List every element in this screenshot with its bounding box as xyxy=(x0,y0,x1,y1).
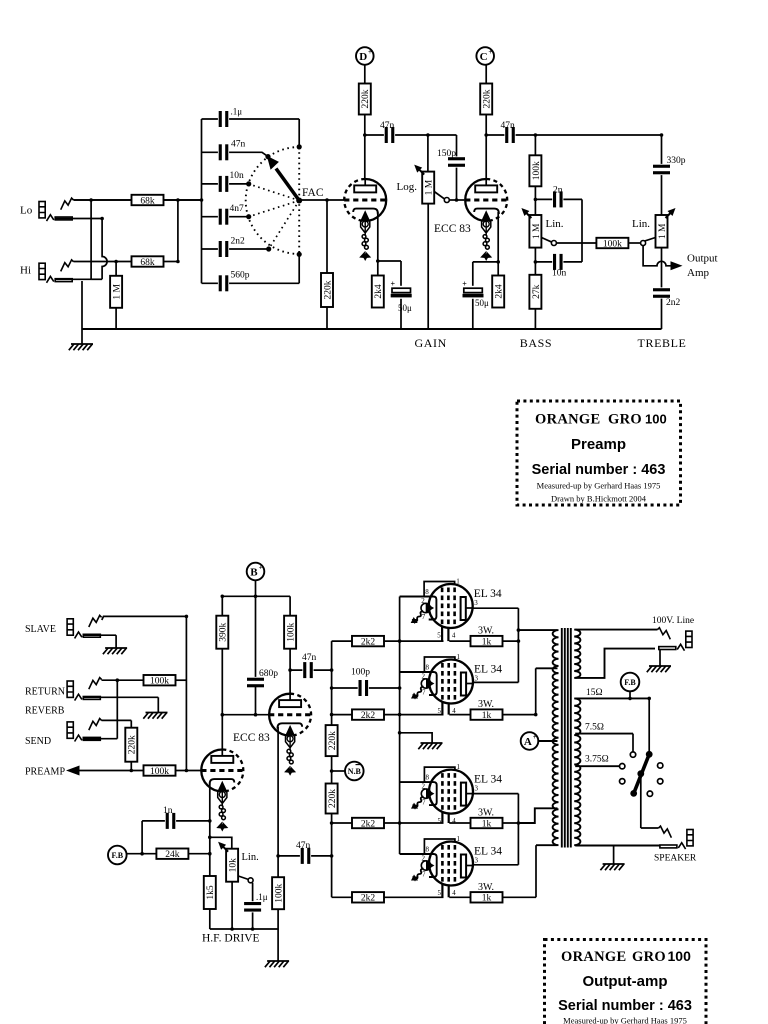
FAC selector dotted chord xyxy=(298,147,300,254)
resistor R20 100k return xyxy=(144,675,176,687)
svg-text:7.5Ω: 7.5Ω xyxy=(585,723,604,733)
svg-text:150p: 150p xyxy=(437,149,456,159)
resistor R4 220k grid xyxy=(321,273,333,307)
preamp nameplate box xyxy=(517,401,681,505)
wire: return tip to send ring vertical xyxy=(116,680,118,739)
svg-text:4: 4 xyxy=(452,817,456,825)
jack J1 Lo input xyxy=(39,198,74,221)
wire: speaker return bus xyxy=(575,845,660,847)
transformer core xyxy=(562,628,571,848)
svg-text:ECC 83: ECC 83 xyxy=(233,732,270,744)
jack J6 100V Line xyxy=(658,628,693,651)
svg-text:10k: 10k xyxy=(229,858,239,873)
svg-text:Lo: Lo xyxy=(20,205,33,217)
tube V3 ECC83 triode (driver input) xyxy=(201,750,243,792)
svg-text:2: 2 xyxy=(422,855,426,863)
wire: join 68k outputs xyxy=(177,200,179,262)
svg-text:2k4: 2k4 xyxy=(495,284,505,299)
svg-text:Serial number : 463: Serial number : 463 xyxy=(532,462,666,478)
resistor R25 100k xyxy=(272,877,284,909)
svg-text:68k: 68k xyxy=(140,196,155,206)
svg-text:1: 1 xyxy=(457,653,461,661)
svg-text:100k: 100k xyxy=(275,883,285,902)
resistor R32 2k2 grid xyxy=(352,818,384,830)
wire: bus B to EL34 grid bracket xyxy=(400,781,426,783)
wire: send ring xyxy=(83,738,117,740)
wire: 1n to FB row xyxy=(141,821,143,854)
resistor R36 220k bias xyxy=(326,784,338,814)
wire: Hi ring contact xyxy=(55,278,91,280)
wire: .1u row xyxy=(202,118,300,120)
wire: C+ to V2 anode xyxy=(485,65,487,186)
wire: 390k branch xyxy=(221,596,223,714)
svg-text:50μ: 50μ xyxy=(398,303,412,313)
wire: 2n row xyxy=(535,198,582,200)
wire: ring to ground xyxy=(659,649,661,666)
svg-text:2n2: 2n2 xyxy=(666,298,681,308)
wire: row3 right xyxy=(449,822,535,824)
svg-text:3W.: 3W. xyxy=(478,699,494,710)
tube V7 EL34 #3 xyxy=(411,763,502,825)
svg-text:2k2: 2k2 xyxy=(361,711,376,721)
wire: FAC right bus upper xyxy=(298,119,300,147)
wire: FAC right bus lower xyxy=(298,254,300,283)
tube V2a ECC83 triode xyxy=(465,179,507,221)
wire: 1k row4 to primary bottom xyxy=(535,845,537,897)
svg-text:+: + xyxy=(368,48,372,56)
wire: switch common to speaker tip xyxy=(640,774,642,828)
svg-text:4: 4 xyxy=(452,707,456,715)
potentiometer VR4 10k (Lin.) xyxy=(218,842,238,882)
svg-text:EL 34: EL 34 xyxy=(474,846,502,858)
capacitor C12 2n xyxy=(552,190,563,208)
capacitor C1 .1u xyxy=(218,110,229,128)
resistor R43 1k 3W xyxy=(471,892,503,904)
wire: bus to ground xyxy=(277,929,279,961)
svg-text:4: 4 xyxy=(452,889,456,897)
svg-text:+: + xyxy=(533,733,537,741)
wire: 10k bottom to bus xyxy=(231,882,233,929)
FAC selector dotted arc xyxy=(246,147,300,254)
wire: EL34 #4 pin4 lead xyxy=(448,878,450,898)
svg-text:7: 7 xyxy=(422,689,426,697)
svg-text:Measured-up by Gerhard Haas 19: Measured-up by Gerhard Haas 1975 xyxy=(563,1016,687,1024)
resistor R1 1M input xyxy=(110,276,122,308)
wiper gain pot xyxy=(434,192,449,203)
resistor R3 68k (Hi) xyxy=(132,256,164,268)
svg-text:ORANGE: ORANGE xyxy=(561,949,626,965)
resistor R40 1k 3W xyxy=(471,636,503,648)
wire: 100k to treble wiper xyxy=(628,242,640,244)
FAC dotted radial xyxy=(249,201,300,217)
wire: FB to 24k xyxy=(127,853,156,855)
wire: ground stem xyxy=(81,329,83,344)
svg-text:3W.: 3W. xyxy=(478,626,494,637)
wiper treble pot xyxy=(641,238,656,246)
svg-text:100k: 100k xyxy=(532,161,542,180)
wire: bus B to EL34 grid bracket xyxy=(400,596,426,598)
svg-text:1 M: 1 M xyxy=(113,283,123,299)
wire: cap join vertical xyxy=(581,199,583,262)
svg-text:220k: 220k xyxy=(328,789,338,808)
wire: 47n row to contact xyxy=(202,152,269,156)
potentiometer VR3 1M treble (Lin.) xyxy=(656,208,676,248)
wire: HF drive bus xyxy=(210,928,278,930)
tube V4 ECC83 triode (cathodyne) xyxy=(269,694,311,736)
wire: V4 cathode down xyxy=(277,727,279,878)
arrow: to output amp xyxy=(671,261,683,270)
svg-text:N.B: N.B xyxy=(348,767,362,776)
FAC wiper arrow xyxy=(267,156,302,204)
capacitor C23 1n xyxy=(165,812,176,830)
svg-text:2: 2 xyxy=(421,597,425,605)
svg-text:TREBLE: TREBLE xyxy=(638,336,687,350)
svg-text:27k: 27k xyxy=(532,284,542,299)
wire: 680p bottom xyxy=(255,687,257,715)
svg-text:A: A xyxy=(524,736,532,748)
node D+ supply xyxy=(356,47,374,65)
svg-text:7: 7 xyxy=(422,613,426,621)
resistor R27 1k5 xyxy=(204,876,216,909)
wire: gain pot to ground xyxy=(427,203,429,329)
svg-text:SLAVE: SLAVE xyxy=(25,624,56,635)
wire: to 150p xyxy=(456,135,458,200)
wire: EL34 #1 pin4 lead xyxy=(447,620,449,641)
wire: bus B to EL34 grid bracket xyxy=(400,671,426,673)
wire: bus to ground xyxy=(613,846,615,865)
wire: 7.5 ohm tap xyxy=(575,733,633,735)
wire: 220k to preamp line xyxy=(130,762,132,771)
svg-text:47n: 47n xyxy=(380,121,395,131)
svg-text:Output-amp: Output-amp xyxy=(583,973,668,990)
ground (slave jack) xyxy=(103,648,127,654)
wire: 100V line tip xyxy=(575,629,657,631)
resistor R35 220k bias xyxy=(326,725,338,756)
wire: FAC to V1 grid xyxy=(299,199,344,201)
wire: 100V line ring xyxy=(575,649,655,678)
svg-text:100k: 100k xyxy=(150,677,169,687)
wire: grid row 2 left xyxy=(332,714,444,716)
wire: 68k Lo out to FAC bus xyxy=(164,199,202,201)
svg-text:390k: 390k xyxy=(219,622,229,641)
svg-text:100: 100 xyxy=(668,948,692,964)
svg-text:GRO: GRO xyxy=(632,949,666,965)
svg-text:3: 3 xyxy=(475,857,479,865)
svg-text:1k: 1k xyxy=(482,819,492,829)
svg-text:2n: 2n xyxy=(553,186,563,196)
wire: V2 cathode xyxy=(497,212,499,276)
wire: preamp ground bus xyxy=(82,328,662,330)
wire: wiper to V2 grid xyxy=(449,199,464,201)
svg-text:3W.: 3W. xyxy=(478,808,494,819)
wire: Hi tip to 68k xyxy=(74,261,132,263)
wire: vertical link Lo ring - Hi ring with hop xyxy=(102,219,107,280)
transformer TR1 secondary speaker winding xyxy=(574,698,580,845)
wire: row4 right xyxy=(449,896,536,898)
svg-text:100p: 100p xyxy=(351,668,370,678)
tube V5 EL34 #1 xyxy=(411,578,502,640)
wire: 50u to ground xyxy=(400,261,402,329)
wire: EL34 #3 pin5 lead xyxy=(441,806,443,823)
wire: grid bus B xyxy=(399,597,401,855)
capacitor C14 330p xyxy=(653,164,671,175)
wire: row1 right xyxy=(449,640,518,642)
svg-text:H.F. DRIVE: H.F. DRIVE xyxy=(202,933,260,945)
svg-text:Lin.: Lin. xyxy=(546,218,564,230)
wire: grid feed bus A xyxy=(331,641,333,897)
svg-text:7: 7 xyxy=(422,871,426,879)
node A+ supply xyxy=(521,732,539,750)
wire: anode bus upper pair xyxy=(517,608,519,682)
wire: vertical link Lo tip - Hi ring xyxy=(90,200,92,279)
svg-text:Measured-up by Gerhard Haas 19: Measured-up by Gerhard Haas 1975 xyxy=(537,481,661,491)
svg-text:ECC 83: ECC 83 xyxy=(434,223,471,235)
capacitor C4 4n7 xyxy=(218,208,229,226)
svg-text:1k5: 1k5 xyxy=(206,885,216,900)
resistor R2 68k (Lo) xyxy=(132,195,164,207)
capacitor C25 100p xyxy=(358,679,369,697)
svg-text:.1μ: .1μ xyxy=(231,107,243,117)
svg-text:1 M: 1 M xyxy=(425,179,435,195)
capacitor C2 47n xyxy=(218,143,229,161)
overline on N.B xyxy=(356,764,360,766)
FAC contact dots xyxy=(246,144,302,257)
svg-text:PREAMP: PREAMP xyxy=(25,767,65,778)
jack J7 SPEAKER xyxy=(659,826,694,849)
wire: slave vertical xyxy=(185,616,187,770)
wire: to N.B node xyxy=(332,770,345,772)
wire: preamp line left xyxy=(78,770,144,772)
resistor R42 1k 3W xyxy=(471,818,503,830)
wiper 10k pot xyxy=(238,876,253,883)
heater V3 xyxy=(216,783,228,832)
resistor R30 2k2 grid xyxy=(352,636,384,648)
svg-text:47n: 47n xyxy=(231,140,246,150)
wire: V3 cathode down xyxy=(209,784,211,877)
wire: speaker tip xyxy=(641,827,659,829)
heater V1a xyxy=(359,212,371,261)
svg-text:24k: 24k xyxy=(165,850,180,860)
wire: input jack sleeve to ground bus xyxy=(81,281,83,329)
capacitor C7 47n coupling xyxy=(384,126,395,144)
wire: cathode to 50u xyxy=(473,261,498,263)
arrow: PREAMP feed xyxy=(66,766,80,776)
output-amp nameplate box xyxy=(545,940,707,1024)
wire: D+ to V1 anode xyxy=(364,65,366,186)
wire: EL34 #3 anode lead xyxy=(466,793,518,795)
svg-text:B: B xyxy=(250,566,258,578)
wire: V2 anode to tone stack top xyxy=(486,134,661,136)
ground (HF drive) xyxy=(265,961,289,967)
svg-text:1: 1 xyxy=(457,835,461,843)
svg-text:+: + xyxy=(462,279,467,288)
svg-text:GAIN: GAIN xyxy=(415,336,447,350)
wire: Lo tip to 68k xyxy=(74,199,201,201)
svg-text:8: 8 xyxy=(425,588,429,596)
svg-text:4n7: 4n7 xyxy=(230,204,245,214)
wire: 15 ohm tap xyxy=(575,697,649,699)
wire: output with hop over treble line xyxy=(643,246,671,266)
capacitor C5 2n2 xyxy=(218,240,229,258)
svg-text:15Ω: 15Ω xyxy=(586,688,603,698)
svg-text:8: 8 xyxy=(426,846,430,854)
wire: bus B to EL34 grid bracket xyxy=(400,853,426,855)
wire: V1 anode to 47n coupling xyxy=(365,134,457,136)
tube V6 EL34 #2 xyxy=(411,653,502,715)
wire: slave ring xyxy=(83,634,116,636)
svg-text:3: 3 xyxy=(474,599,478,607)
resistor R8 2k4 cathode xyxy=(492,276,504,308)
svg-text:3: 3 xyxy=(475,785,479,793)
wire: grid row 3 left xyxy=(332,822,444,824)
ground (preamp input) xyxy=(69,344,93,350)
jack J3 SLAVE xyxy=(67,615,102,638)
wire: send tip xyxy=(102,719,132,721)
svg-text:REVERB: REVERB xyxy=(25,706,65,717)
resistor R10 27k xyxy=(529,275,541,309)
resistor R31 2k2 grid xyxy=(352,709,384,721)
svg-text:1k: 1k xyxy=(482,894,492,904)
wire: B+ down to 680p xyxy=(255,580,257,678)
svg-text:100k: 100k xyxy=(150,767,169,777)
capacitor C22 47n lower drive xyxy=(300,847,311,865)
node C+ supply xyxy=(476,47,494,65)
svg-text:Serial number : 463: Serial number : 463 xyxy=(558,998,692,1014)
wire: lower pair to primary tap xyxy=(518,808,557,823)
svg-text:BASS: BASS xyxy=(520,336,552,350)
wire: EL34 #3 pin4 lead xyxy=(448,806,450,823)
svg-text:330p: 330p xyxy=(667,156,686,166)
wire: EL34 #2 pin5 lead xyxy=(441,696,443,715)
resistor R22 100k preamp xyxy=(144,765,176,777)
wire: to 220k grid resistor xyxy=(326,200,328,273)
wire: 10n row to contact xyxy=(202,183,249,185)
heater V4 xyxy=(284,727,296,776)
svg-text:.1μ: .1μ xyxy=(256,892,268,902)
wire: primary bottom lead xyxy=(536,844,558,846)
svg-text:2k2: 2k2 xyxy=(361,894,376,904)
svg-text:+: + xyxy=(259,563,263,571)
jack J2 Hi input xyxy=(39,260,74,283)
wire: EL34 #4 anode lead xyxy=(466,864,518,866)
svg-text:5: 5 xyxy=(437,632,441,640)
wire: treble vertical bottom xyxy=(661,248,663,329)
heater V2a xyxy=(480,212,492,261)
capacitor C24 .1u xyxy=(244,901,262,912)
svg-text:10n: 10n xyxy=(552,269,567,279)
svg-text:Drawn by B.Hickmott 2004: Drawn by B.Hickmott 2004 xyxy=(551,494,647,504)
svg-text:680p: 680p xyxy=(259,669,278,679)
wire: return ring xyxy=(83,696,158,698)
svg-text:Preamp: Preamp xyxy=(571,436,626,453)
svg-text:1k: 1k xyxy=(482,711,492,721)
svg-text:220k: 220k xyxy=(328,731,338,750)
wire: 100k branch xyxy=(289,596,291,670)
wire: return tip to 100k xyxy=(102,679,144,681)
svg-text:1k: 1k xyxy=(482,638,492,648)
wire: primary tap upper xyxy=(536,667,558,669)
svg-text:47n: 47n xyxy=(501,121,516,131)
resistor R7 220k anode xyxy=(480,84,492,115)
svg-text:220k: 220k xyxy=(128,735,138,754)
wire: 2n2 row to contact xyxy=(202,248,269,250)
svg-text:F.B: F.B xyxy=(112,851,124,860)
wire: 1k row2 to primary tap xyxy=(535,668,537,714)
wire: 4n7 row to contact xyxy=(202,216,249,218)
jack J4 RETURN xyxy=(67,678,102,701)
svg-text:3: 3 xyxy=(475,675,479,683)
ground (return jack) xyxy=(143,713,167,719)
wire: EL34 #1 pin5 lead xyxy=(441,620,443,641)
wire: anode junction to 47n upper xyxy=(290,669,332,671)
wire: 50u to ground xyxy=(472,262,474,329)
wire: 1M to ground bus xyxy=(115,262,117,330)
svg-text:5: 5 xyxy=(438,889,442,897)
wire: grid row 4 left xyxy=(332,896,444,898)
wire: send tip to 220k xyxy=(130,720,132,728)
wire: bus B ground stub xyxy=(400,733,433,743)
capacitor C8 150p xyxy=(448,156,466,167)
wire: A+ to primary centre tap xyxy=(538,740,557,742)
wire: EL34 #4 pin5 lead xyxy=(441,878,443,898)
wire: grid row 1 left xyxy=(332,640,444,642)
wire: preamp line to V3 grid xyxy=(176,770,204,772)
svg-text:2k2: 2k2 xyxy=(361,819,376,829)
capacitor C9 50u electrolytic xyxy=(390,279,412,299)
svg-text:1: 1 xyxy=(457,763,461,771)
svg-text:3W.: 3W. xyxy=(478,882,494,893)
resistor R11 100k xyxy=(596,238,628,250)
svg-text:2: 2 xyxy=(422,783,426,791)
capacitor C6 560p xyxy=(218,274,229,292)
svg-text:Output: Output xyxy=(687,253,718,265)
jack J5 SEND xyxy=(67,719,102,742)
junction dots output section xyxy=(116,595,652,931)
wire: B+ rail xyxy=(222,595,290,597)
wire: 3.75 ohm tap xyxy=(575,765,619,767)
wire: to gain pot top xyxy=(427,135,429,172)
wire: 7.5 ohm to switch xyxy=(632,734,634,752)
wire: 68k Hi out xyxy=(164,261,178,263)
tube V8 EL34 #4 xyxy=(411,835,502,897)
FAC dotted radial xyxy=(249,184,300,201)
svg-text:5: 5 xyxy=(438,817,442,825)
wire: 10k pot top xyxy=(210,837,232,849)
wire: bass chain vertical xyxy=(534,135,536,329)
svg-text:F.B: F.B xyxy=(624,678,636,687)
wire: anode bus lower pair xyxy=(517,794,519,865)
resistor R23 390k xyxy=(216,616,228,649)
tube V1a ECC83 triode xyxy=(344,179,386,221)
wire: EL34 #1 anode lead xyxy=(466,607,519,609)
svg-text:FAC: FAC xyxy=(302,187,324,199)
capacitor C3 10n xyxy=(218,175,229,193)
svg-text:1 M: 1 M xyxy=(532,223,542,239)
svg-text:1: 1 xyxy=(456,578,460,586)
svg-text:100k: 100k xyxy=(603,239,622,249)
svg-text:2: 2 xyxy=(422,673,426,681)
capacitor C20 680p xyxy=(247,677,265,688)
svg-text:4: 4 xyxy=(452,632,456,640)
potentiometer VR2 1M bass (Lin.) xyxy=(521,208,541,248)
svg-text:220k: 220k xyxy=(361,89,371,108)
wire: FAC left bus xyxy=(201,119,203,283)
svg-text:EL 34: EL 34 xyxy=(474,774,502,786)
ground (100V line) xyxy=(647,666,671,672)
wire: FB to 15 ohm tap xyxy=(629,691,631,698)
svg-text:SEND: SEND xyxy=(25,736,51,747)
resistor R6 2k4 cathode xyxy=(372,276,384,308)
